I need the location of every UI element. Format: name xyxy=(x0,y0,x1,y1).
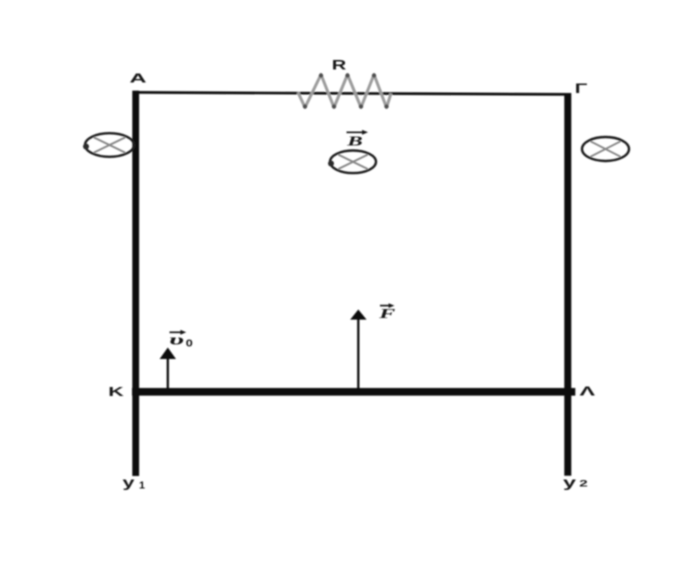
svg-text:1: 1 xyxy=(139,481,145,492)
svg-text:0: 0 xyxy=(186,338,194,349)
svg-text:K: K xyxy=(108,384,125,399)
svg-text:B: B xyxy=(346,133,363,148)
svg-text:R: R xyxy=(332,58,347,73)
svg-text:Λ: Λ xyxy=(580,384,596,399)
svg-text:A: A xyxy=(130,71,148,86)
svg-text:Γ: Γ xyxy=(575,81,588,96)
svg-text:y: y xyxy=(563,474,576,490)
svg-text:2: 2 xyxy=(579,479,588,490)
svg-text:F: F xyxy=(378,307,397,322)
svg-text:y: y xyxy=(123,474,135,490)
svg-text:υ: υ xyxy=(169,332,184,348)
